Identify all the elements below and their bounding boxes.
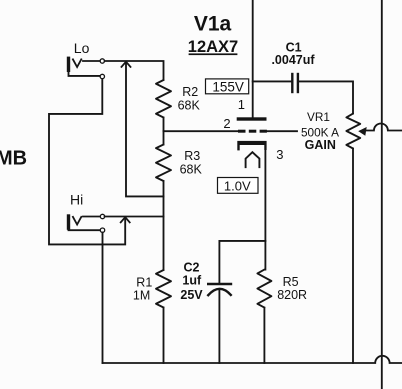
wire: Lo bar to shunt circle: [69, 72, 100, 76]
svg-text:R3: R3: [184, 149, 200, 163]
wire: Lo jack shunt to Hi line (arrow junction): [49, 79, 125, 245]
underline of 12AX7: [189, 53, 238, 55]
svg-text:820R: 820R: [277, 288, 307, 302]
jack Lo shunt terminal circle: [100, 74, 104, 78]
jack Hi tip bar: [67, 214, 70, 230]
wire: R5 bottom to ground bus: [263, 308, 265, 363]
wire: Lo contact to tip circle: [83, 60, 100, 62]
triode V1a grid dashes: [238, 130, 267, 133]
wire: R3 bottom down through junctions to R1 top: [163, 181, 165, 270]
wire: R2 bottom to grid node: [163, 118, 165, 132]
wire: cathode lead down to R5 top: [264, 145, 266, 270]
capacitor C2 top plate: [208, 283, 231, 285]
wire: anode to C1 left plate: [253, 80, 292, 82]
jack Hi shunt terminal circle: [100, 228, 104, 232]
svg-text:1M: 1M: [133, 288, 150, 302]
resistor R3 68K body: [156, 145, 171, 182]
capacitor C2 curved plate: [208, 289, 231, 295]
capacitor C1: [292, 74, 298, 92]
wire: branch from Lo line down to R3 bottom junction (arrow junction): [126, 62, 164, 196]
wire: grid wire from R2/R3 junction to V1a grid: [164, 130, 238, 132]
wire: Hi jack shunt straight down to ground bus: [102, 233, 104, 363]
arrowhead junction marker at Lo line: [122, 62, 131, 67]
wire: plate supply vertical to V1a anode: [252, 0, 254, 118]
wire: C2 bottom to ground bus: [218, 289, 220, 363]
resistor R2 68K body: [156, 80, 171, 118]
svg-text:12AX7: 12AX7: [188, 38, 238, 56]
wire: R1 bottom to ground bus: [163, 308, 165, 364]
wire: HT bus vertical right edge: [381, 0, 383, 389]
svg-text:1uf: 1uf: [182, 273, 202, 287]
wire: Hi bar to shunt circle: [69, 229, 100, 230]
wire: VR1 wiper with hop over HT bus to right edge: [365, 124, 402, 131]
svg-text:VR1: VR1: [307, 110, 330, 124]
svg-text:25V: 25V: [180, 288, 203, 302]
box around 1.0V: [218, 178, 259, 194]
svg-text:R1: R1: [136, 275, 152, 289]
resistor R5 820R body: [257, 270, 271, 308]
triode V1a heater chevron: [246, 152, 260, 167]
svg-text:68K: 68K: [178, 99, 201, 113]
jack Hi spring contact: [73, 217, 81, 225]
wire: Hi contact to tip circle: [83, 216, 100, 218]
svg-text:68K: 68K: [180, 163, 203, 177]
arrowhead junction marker at Hi line: [121, 217, 130, 222]
jack Lo tip terminal circle: [100, 59, 104, 63]
wire: ground bus with hop over HT bus: [103, 356, 402, 363]
svg-text:1.0V: 1.0V: [224, 178, 251, 193]
svg-text:3: 3: [276, 147, 283, 162]
wire: grid node to R3 top: [163, 131, 165, 145]
wiper arrowhead of VR1: [358, 127, 367, 136]
svg-text:.0047uf: .0047uf: [271, 53, 315, 67]
wire: C1 right plate to VR1 top: [299, 81, 353, 113]
triode V1a cathode bar: [237, 141, 266, 151]
svg-text:Lo: Lo: [74, 40, 90, 56]
jack Hi tip terminal circle: [100, 214, 104, 218]
jack Lo tip bar: [67, 57, 70, 72]
wire: VR1 bottom to ground bus: [352, 149, 354, 364]
potentiometer VR1 500K A body: [346, 114, 360, 149]
wire: Hi input line to R3/R1 junction: [105, 216, 164, 218]
resistor R1 1M body: [156, 270, 171, 308]
svg-text:155V: 155V: [212, 80, 244, 95]
svg-text:R5: R5: [283, 275, 299, 289]
svg-text:V1a: V1a: [194, 13, 232, 36]
wire: grid stub from V1a grid toward VR1 wiper: [267, 130, 297, 132]
svg-text:MB: MB: [0, 147, 27, 169]
triode U V1a anode plate bar: [237, 117, 267, 120]
svg-text:C2: C2: [184, 261, 200, 275]
wire: cathode tee left to C2 top: [219, 241, 265, 283]
svg-text:2: 2: [223, 116, 230, 131]
box around 155V: [206, 79, 249, 94]
svg-text:1: 1: [238, 97, 245, 112]
svg-text:R2: R2: [182, 85, 198, 99]
wire: Lo input line to R2 top: [105, 61, 164, 80]
svg-text:GAIN: GAIN: [305, 138, 336, 152]
jack Lo spring contact: [73, 59, 81, 67]
svg-text:Hi: Hi: [70, 191, 83, 207]
